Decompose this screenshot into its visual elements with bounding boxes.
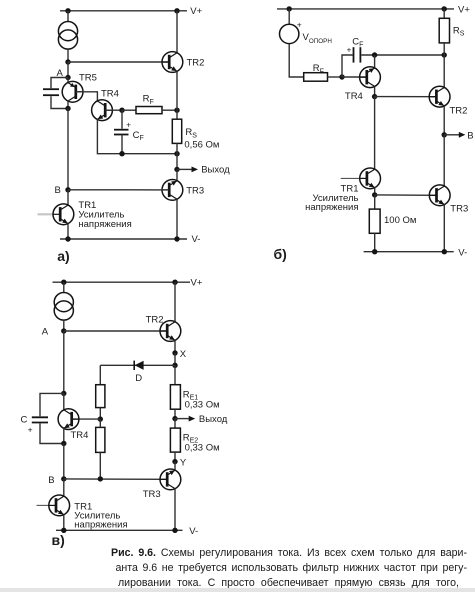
transistor TR4 (v) — [58, 409, 79, 430]
svg-text:+: + — [297, 20, 302, 30]
wire V- rail (v) — [56, 529, 183, 531]
resistor R2 (v) — [96, 427, 105, 452]
wire TR2 emitter lead (v) — [174, 340, 176, 353]
svg-text:A: A — [42, 326, 49, 337]
wire cap top lead (v) — [40, 393, 64, 416]
wire TR4 emitter lead (b) — [374, 55, 376, 68]
wire B arrow line (b) — [444, 134, 459, 136]
wire RS bottom lead (b) — [443, 43, 445, 55]
wire cap bottom lead (v) — [40, 424, 64, 444]
node TR1 emitter / TR3 base (b) — [372, 192, 377, 197]
svg-text:TR2: TR2 — [187, 58, 205, 69]
wire V- rail (a) — [60, 238, 187, 240]
wire CF bottom lead (a) — [121, 136, 123, 154]
resistor RE2 (v) — [170, 428, 180, 452]
node A (a) — [65, 75, 70, 80]
node TR4 base junction (v) — [98, 416, 103, 421]
wire RS bottom lead (a) — [176, 143, 178, 169]
wire B to TR3 base (a) — [68, 189, 169, 191]
wire capacitor bottom lead (a) — [51, 96, 68, 108]
node RF / CF / TR4 base (b) — [339, 74, 344, 79]
svg-text:напряжения: напряжения — [74, 520, 127, 531]
node output (a) — [174, 167, 179, 172]
wire current source top lead (v) — [63, 282, 65, 292]
capacitor CF (b) — [354, 47, 361, 62]
wire TR1 emitter lead (b) — [374, 188, 376, 195]
node B (b) — [442, 132, 447, 137]
svg-text:V-: V- — [458, 247, 467, 258]
wire TR4 emitter lead (v) — [63, 428, 65, 443]
wire TR1 collector lead (v) — [63, 479, 65, 496]
svg-text:V+: V+ — [190, 6, 202, 17]
wire output arrow line (v) — [175, 418, 189, 420]
stub TR1 base (b) — [341, 177, 360, 179]
arrow B (b) — [459, 132, 466, 138]
wire TR3 emitter lead (a) — [176, 169, 178, 180]
svg-text:0,33 Ом: 0,33 Ом — [185, 399, 220, 410]
wire current source top lead (a) — [67, 11, 69, 22]
svg-text:б): б) — [274, 246, 287, 262]
node V- right (a) — [174, 236, 179, 241]
wire TR2 emitter lead (a) — [176, 71, 178, 110]
wire TR1 emitter lead (a) — [67, 224, 69, 240]
wire TR2 collector lead (a) — [176, 11, 178, 53]
wire A to TR2 base (v) — [64, 330, 167, 332]
node V- left (v) — [61, 528, 66, 533]
wire RS top lead (a) — [176, 110, 178, 119]
resistor 100 Ohm (b) — [369, 209, 380, 233]
svg-text:+: + — [28, 424, 33, 434]
node TR4 emitter / CF (b) — [372, 52, 377, 57]
wire TR4 base (b) — [342, 76, 367, 78]
caption line 2 — [116, 562, 468, 574]
wire B to TR3 base (v) — [64, 478, 168, 480]
wire TR4 emitter lead (a) — [97, 119, 176, 153]
transistor TR1 (v) — [49, 495, 70, 516]
wire 100ohm bottom lead (b) — [374, 233, 376, 251]
node output (v) — [172, 416, 177, 421]
wire TR4 collector lead (v) — [63, 393, 65, 410]
node RS bottom (b) — [442, 52, 447, 57]
node Y (v) — [172, 459, 177, 464]
diode D (v) — [134, 361, 143, 370]
svg-text:TR2: TR2 — [450, 105, 468, 116]
wire RF right lead (b) — [328, 76, 343, 78]
svg-text:а): а) — [57, 248, 69, 264]
wire diode line (v) — [100, 364, 175, 366]
node cap top / TR4 collector (v) — [61, 391, 66, 396]
svg-text:Y: Y — [180, 457, 187, 468]
source Vref circle (b) — [280, 24, 299, 43]
transistor TR4 (b) — [360, 67, 381, 88]
wire V- rail (b) — [364, 251, 454, 253]
transistor TR2 (b) — [429, 86, 450, 107]
svg-text:RF: RF — [313, 63, 324, 75]
node cap bottom / TR4 emitter (v) — [61, 441, 66, 446]
wire RE1 bottom lead (v) — [174, 409, 176, 418]
wire output arrow line (a) — [177, 168, 192, 170]
svg-text:TR3: TR3 — [450, 203, 468, 214]
wire 100ohm top lead (b) — [374, 195, 376, 209]
node TR4 collector / TR2 base (b) — [372, 94, 377, 99]
wire CF top lead (a) — [121, 110, 123, 129]
transistor TR2 (a) — [162, 52, 183, 73]
node B (v) — [61, 476, 66, 481]
wire CF right to RS bottom (b) — [361, 54, 444, 56]
svg-text:+: + — [347, 45, 352, 54]
node TR2 base junction (a) — [65, 59, 70, 64]
resistor RF (b) — [304, 73, 328, 82]
node V+ / TR2 collector (v) — [172, 280, 177, 285]
wire TR2 base (a) — [68, 61, 169, 63]
wire TR3 collector lead (a) — [176, 199, 178, 239]
node CF bottom (a) — [119, 151, 124, 156]
svg-text:V+: V+ — [191, 277, 203, 288]
wire TR4-B vertical (v) — [63, 444, 65, 479]
wire A-B vertical (a) — [67, 109, 69, 190]
transistor TR3 (a) — [162, 180, 183, 201]
wire TR3 emitter lead (v) — [174, 462, 176, 471]
wire Vref bottom lead (b) — [289, 44, 304, 77]
caption line 1 — [111, 547, 467, 559]
node diode anode (v) — [172, 363, 177, 368]
wire TR5 emitter lead (a) — [67, 78, 69, 84]
wire capacitor top lead (a) — [51, 78, 68, 89]
wire TR4 base (v) — [72, 418, 101, 420]
resistor RS (b) — [439, 18, 449, 43]
svg-text:0,56 Ом: 0,56 Ом — [184, 139, 219, 150]
svg-text:V+: V+ — [458, 5, 470, 16]
svg-text:TR4: TR4 — [345, 91, 363, 102]
node V+ rail / TR2 collector (a) — [174, 8, 179, 13]
svg-text:TR2: TR2 — [146, 315, 164, 326]
wire TR2 base (b) — [375, 96, 437, 98]
wire V+ rail (circuit a) — [60, 10, 187, 12]
svg-text:0,33 Ом: 0,33 Ом — [185, 442, 220, 453]
wire TR5 base to TR4 collector (a) — [76, 92, 98, 101]
transistor TR1 (a) — [53, 204, 74, 225]
svg-text:напряжения: напряжения — [78, 219, 131, 230]
svg-text:напряжения: напряжения — [305, 202, 358, 213]
wire R1 to TR4 base node (v) — [99, 408, 101, 420]
node X (v) — [172, 350, 177, 355]
svg-text:Выход: Выход — [199, 414, 228, 425]
wire node A vertical (a) — [67, 62, 69, 78]
svg-text:RS: RS — [453, 25, 465, 37]
transistor TR2 (v) — [160, 321, 181, 342]
capacitor CF (a) — [114, 130, 129, 135]
svg-text:в): в) — [52, 532, 65, 548]
wire RS top lead (b) — [443, 9, 445, 18]
resistor RS (a) — [172, 119, 181, 143]
wire TR4-TR1 vertical (b) — [374, 97, 376, 170]
wire TR1 collector lead (a) — [67, 190, 69, 205]
wire A-TR4 vertical (v) — [63, 331, 65, 393]
node V- left (a) — [65, 236, 70, 241]
node RF left junction (a) — [119, 108, 124, 113]
svg-text:+: + — [126, 121, 131, 130]
svg-text:B: B — [48, 475, 54, 486]
wire TR4 collector lead (b) — [374, 86, 376, 96]
wire RE1 top lead (v) — [174, 365, 176, 384]
svg-text:RS: RS — [185, 127, 197, 139]
capacitor C (v) — [32, 417, 48, 422]
wire V+ rail (b) — [277, 8, 454, 10]
svg-text:RF: RF — [143, 94, 154, 106]
wire TR3 collector lead (v) — [174, 489, 176, 531]
wire TR2 collector lead (v) — [174, 282, 176, 322]
svg-text:TR3: TR3 — [143, 489, 161, 500]
stub TR1 base (v) — [37, 504, 49, 506]
wire TR3 emitter lead (b) — [443, 205, 445, 252]
caption line 3 — [118, 577, 459, 589]
arrow output (v) — [189, 416, 196, 422]
svg-text:X: X — [180, 349, 187, 360]
node V+ / Vref (b) — [287, 6, 292, 11]
svg-text:TR4: TR4 — [71, 430, 89, 441]
wire RE2 bottom lead (v) — [174, 452, 176, 462]
capacitor Cdom (a) — [43, 89, 59, 95]
node V- right (v) — [172, 528, 177, 533]
arrow output (a) — [192, 167, 199, 173]
wire left resistor top lead (v) — [99, 365, 101, 384]
node V+ / RS (b) — [442, 6, 447, 11]
wire TR4 base lead (a) — [105, 109, 122, 111]
svg-text:B: B — [55, 185, 61, 196]
current source I1 (a) — [58, 22, 77, 50]
transistor TR1 (b) — [360, 168, 381, 189]
wire R2 bottom lead (v) — [99, 452, 101, 479]
resistor R1 (v) — [96, 385, 105, 408]
node RS bottom junction (a) — [174, 151, 179, 156]
resistor RE1 (v) — [170, 385, 180, 410]
svg-text:TR4: TR4 — [101, 89, 119, 100]
stub TR1 base gray (a) — [38, 213, 54, 215]
wire V+ rail (v) — [53, 281, 191, 283]
svg-text:V-: V- — [189, 526, 198, 537]
transistor TR4 (a) — [92, 100, 113, 121]
svg-text:D: D — [135, 373, 142, 384]
transistor TR3 (v) — [160, 469, 181, 490]
svg-text:C: C — [21, 414, 28, 425]
svg-text:TR5: TR5 — [79, 72, 97, 83]
wire CF left lead (b) — [342, 55, 353, 77]
node A (v) — [61, 328, 66, 333]
wire TR2 collector lead (b) — [443, 55, 445, 88]
node V- left (b) — [372, 249, 377, 254]
wire TR1 emitter lead (v) — [63, 515, 65, 531]
node V- right (b) — [442, 249, 447, 254]
svg-text:TR3: TR3 — [186, 185, 204, 196]
node RF / RS rail (a) — [174, 108, 179, 113]
wire RF left lead (a) — [122, 109, 136, 111]
wire TR3 base (b) — [375, 194, 437, 196]
node TR5 collector / cap (a) — [65, 106, 70, 111]
wire current source bottom lead (v) — [63, 320, 65, 331]
page bottom gray band — [0, 588, 475, 592]
wire TR2 emitter lead (b) — [443, 106, 445, 135]
node R2 bottom on B line (v) — [98, 476, 103, 481]
svg-text:V-: V- — [192, 234, 201, 245]
svg-text:100 Ом: 100 Ом — [384, 215, 416, 226]
node B (a) — [65, 187, 70, 192]
resistor RF (a) — [136, 107, 162, 114]
wire Vref top lead (b) — [288, 9, 290, 24]
wire TR5 collector lead (a) — [67, 101, 69, 109]
node V+ rail / current source (a) — [65, 8, 70, 13]
svg-text:VОПОРН: VОПОРН — [303, 32, 333, 45]
svg-text:B: B — [467, 130, 473, 141]
current source I1 (v) — [54, 293, 73, 321]
node V+ / current source (v) — [61, 280, 66, 285]
wire X to diode junction (v) — [174, 353, 176, 365]
wire R2 top lead (v) — [99, 419, 101, 427]
transistor TR5 (a) — [62, 81, 83, 102]
wire RE2 top lead (v) — [174, 419, 176, 429]
svg-text:CF: CF — [133, 130, 144, 142]
wire current source bottom lead (a) — [67, 49, 69, 62]
wire RF right lead (a) — [162, 109, 177, 111]
svg-text:CF: CF — [352, 36, 363, 48]
svg-text:Выход: Выход — [201, 164, 230, 175]
wire TR3 collector lead (b) — [443, 135, 445, 186]
transistor TR3 (b) — [429, 185, 450, 206]
